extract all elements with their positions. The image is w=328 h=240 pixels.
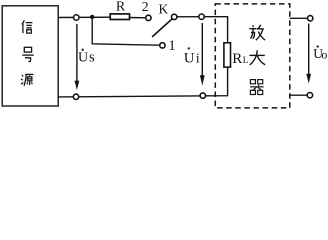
hanzi 放 (amplifier) — [249, 25, 265, 41]
arrow Uo — [306, 24, 311, 84]
svg-text:R: R — [116, 0, 126, 15]
wire: pivot to amplifier input — [174, 16, 204, 18]
terminal circle: contact 1 — [160, 43, 165, 48]
hanzi 器 (amplifier) — [250, 80, 264, 95]
switch K arm — [152, 19, 172, 37]
svg-text:2: 2 — [142, 0, 149, 15]
resistor RL — [224, 43, 231, 67]
terminal circle: output top — [308, 16, 313, 21]
wire: box to resistor (top) — [58, 16, 110, 18]
wire: resistor to contact 2 — [129, 17, 146, 19]
svg-text:U: U — [78, 51, 88, 66]
signal source box — [2, 6, 58, 106]
terminal circle: output bottom — [307, 93, 312, 98]
wire: branch node down and right to contact 1 — [92, 17, 159, 45]
svg-text:R: R — [232, 51, 242, 67]
terminal circle: contact 2 — [146, 15, 151, 20]
terminal circle: source top output — [74, 15, 79, 20]
wire: output bottom from dashed box — [290, 94, 310, 96]
arrow Ui — [200, 23, 205, 86]
label Ui — [184, 47, 200, 66]
svg-text:U: U — [184, 50, 195, 66]
wire: input circle into dashed box, down to RL — [202, 17, 228, 43]
dashed amplifier box — [215, 4, 289, 108]
wire: output top from dashed box — [290, 17, 310, 19]
junction node dot — [90, 15, 94, 19]
wire: bottom run from box to RL foot — [58, 67, 227, 97]
terminal circle: source bottom — [73, 94, 78, 99]
hanzi 大 (amplifier) — [250, 50, 266, 65]
label RL — [232, 51, 248, 67]
terminal circle: switch pivot — [172, 14, 177, 19]
terminal circle: amplifier input top — [199, 14, 204, 19]
hanzi 信 (signal box) — [22, 20, 33, 33]
svg-text:1: 1 — [168, 38, 176, 54]
terminal circle: amplifier input bottom — [200, 93, 205, 98]
svg-text:K: K — [159, 1, 169, 16]
label Uo — [313, 45, 327, 61]
svg-text:i: i — [196, 50, 200, 65]
arrow Us — [75, 24, 80, 90]
hanzi 源 (signal box) — [21, 74, 33, 86]
svg-text:L: L — [243, 55, 249, 65]
label Us — [78, 49, 95, 66]
resistor R — [110, 14, 129, 20]
svg-text:s: s — [89, 50, 95, 66]
svg-text:o: o — [321, 48, 327, 62]
hanzi 号 (signal box) — [22, 47, 34, 61]
